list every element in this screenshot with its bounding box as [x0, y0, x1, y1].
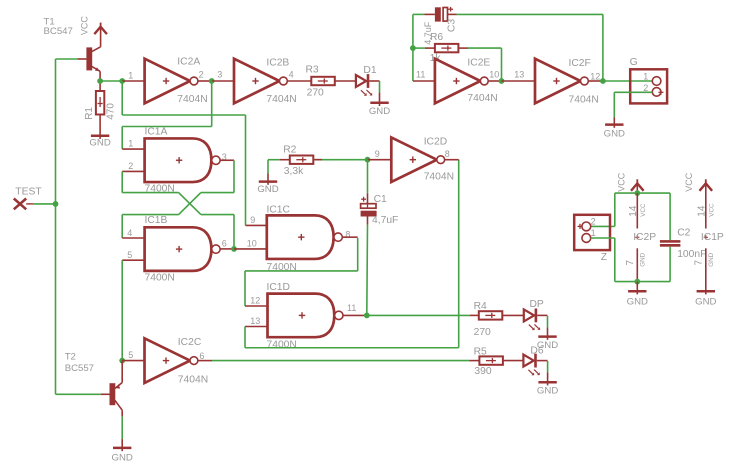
svg-text:GND: GND	[257, 184, 278, 195]
wire IC1A output to IC1B pin4 net	[122, 160, 234, 238]
svg-text:GND: GND	[112, 452, 133, 463]
transistor Q T1 BC547	[77, 47, 100, 81]
wire IC2C output to R5	[198, 360, 480, 362]
svg-text:4: 4	[289, 69, 294, 79]
value 7400N (IC1A)	[145, 184, 175, 195]
svg-text:IC2F: IC2F	[569, 58, 591, 69]
op-amp IC2D 7404 inverter	[391, 137, 444, 182]
pin 4 label (IC2B)	[289, 69, 294, 79]
wire G pin2 to GND	[614, 92, 652, 124]
op-amp IC2P power pins	[635, 235, 639, 239]
svg-text:7404N: 7404N	[424, 171, 454, 182]
test point TEST cross	[14, 199, 34, 210]
label R6	[430, 32, 443, 43]
op-amp IC2C 7404 inverter	[145, 338, 198, 383]
wire junction to GND (IC2P)	[636, 282, 638, 292]
value 100nF (C2)	[677, 249, 706, 260]
wire R3 to D1	[335, 80, 356, 82]
wire C1 to IC1D output junction	[366, 217, 369, 316]
svg-text:7: 7	[694, 260, 705, 266]
wire IC1C output	[342, 236, 358, 238]
label IC1A	[145, 126, 168, 137]
svg-text:GND: GND	[604, 129, 625, 140]
svg-text:8: 8	[345, 230, 350, 240]
pin 9 label (IC2D)	[375, 149, 380, 159]
wire pin13 IC1D	[245, 326, 268, 328]
label IC2A	[177, 57, 200, 68]
svg-text:2: 2	[643, 83, 648, 93]
value 7404N (IC2F)	[569, 94, 599, 105]
svg-text:R3: R3	[306, 64, 319, 75]
pin 10 label (IC1C)	[247, 238, 257, 248]
node VCC junction	[634, 190, 640, 196]
value 270 (R3)	[307, 87, 324, 98]
pin GND label (IC2P)	[640, 252, 647, 266]
wire VCC rail to Z pin2	[591, 193, 670, 226]
svg-text:3: 3	[217, 69, 222, 79]
capacitor C3 4,7uF	[435, 7, 448, 21]
wire pin1 IC2A	[122, 80, 144, 82]
svg-text:IC1C: IC1C	[267, 204, 291, 215]
ground (D1)	[369, 102, 390, 117]
ground (D6)	[537, 382, 558, 397]
value 270 (R4)	[474, 327, 491, 338]
value 4,7uF (C3)	[423, 21, 433, 45]
svg-text:GND: GND	[89, 137, 110, 148]
svg-text:7404N: 7404N	[177, 94, 207, 105]
label IC2P	[633, 232, 656, 243]
wire Z pin1 to GND rail	[591, 238, 670, 282]
wire pin9 IC2D	[368, 159, 392, 161]
wire C3 right net	[448, 14, 603, 81]
pin 2 label (G)	[643, 83, 648, 93]
pin 8 label (IC2D)	[445, 149, 450, 159]
label G	[630, 57, 638, 68]
value 7400N (IC1C)	[267, 262, 297, 273]
svg-text:D6: D6	[530, 345, 543, 356]
op-amp IC2F 7404 inverter	[535, 59, 588, 104]
label R5	[474, 347, 487, 358]
svg-text:IC2A: IC2A	[177, 57, 200, 68]
op-amp IC2B 7404 inverter	[234, 59, 287, 104]
pin 12 label (IC2F)	[590, 72, 600, 82]
svg-text:BC557: BC557	[65, 363, 94, 374]
ground (G)	[604, 124, 625, 140]
wire IC1A output	[220, 159, 234, 161]
label T1	[44, 16, 73, 37]
wire pin9 IC1C	[246, 224, 267, 226]
ground (IC2P)	[627, 291, 648, 308]
pin 11 label (IC2E)	[416, 69, 425, 79]
wire pin13 IC2F	[502, 80, 536, 82]
wire IC2F output	[589, 80, 603, 82]
svg-text:1: 1	[643, 71, 648, 81]
wire R4 to DP	[502, 314, 524, 316]
value 4,7uF (C1)	[372, 215, 398, 226]
wire pin5 IC1B	[122, 259, 144, 261]
LED DP	[524, 309, 540, 331]
svg-text:5: 5	[128, 350, 133, 360]
VCC symbol (IC2P)	[631, 179, 644, 191]
svg-text:IC2C: IC2C	[178, 337, 202, 348]
value 7404N (IC2E)	[467, 93, 497, 104]
resistor R2	[290, 156, 314, 164]
svg-text:VCC: VCC	[79, 16, 89, 36]
VCC label (IC2P)	[616, 172, 626, 192]
label TEST	[15, 186, 42, 197]
wire IC1D output	[343, 314, 367, 316]
node IC2A input junction	[119, 78, 125, 84]
svg-text:GND: GND	[627, 297, 648, 308]
label C1	[374, 194, 387, 205]
svg-text:9: 9	[375, 149, 380, 159]
wire pin10 IC1C	[234, 248, 267, 250]
svg-text:13: 13	[514, 69, 524, 79]
wire pin1 IC1A	[122, 148, 144, 150]
svg-text:VCC: VCC	[640, 203, 647, 217]
wire IC2P pin14 stem	[636, 193, 638, 228]
pin 1 label (Z)	[591, 228, 596, 238]
svg-text:VCC: VCC	[684, 172, 694, 192]
value 1k (R6)	[430, 53, 442, 64]
svg-text:IC1A: IC1A	[145, 126, 168, 137]
op-amp IC2A 7404 inverter	[145, 59, 198, 104]
svg-text:GND: GND	[695, 297, 716, 308]
pin 3 label (IC1A)	[222, 152, 227, 162]
wire R6 right	[458, 48, 501, 81]
svg-text:R4: R4	[474, 301, 487, 312]
svg-text:IC2D: IC2D	[424, 136, 447, 147]
value 390 (R5)	[474, 366, 491, 377]
op-amp IC2E 7404 inverter	[435, 59, 488, 104]
label R2	[283, 145, 296, 156]
svg-text:C3: C3	[446, 19, 457, 32]
svg-text:7404N: 7404N	[569, 94, 599, 105]
label R4	[474, 301, 487, 312]
label IC2E	[467, 57, 490, 68]
label Z	[601, 252, 607, 263]
svg-text:IC1D: IC1D	[267, 282, 290, 293]
nand gate IC1B 7400	[145, 227, 220, 271]
pin GND label (IC1P)	[708, 252, 715, 266]
node IC2P ground junction	[634, 279, 640, 285]
svg-text:5: 5	[127, 250, 132, 260]
wire C2 top	[669, 193, 671, 240]
label IC1B	[145, 215, 168, 226]
svg-text:9: 9	[250, 215, 255, 225]
label C2	[677, 227, 690, 238]
svg-text:8: 8	[445, 149, 450, 159]
ground (IC1P)	[695, 291, 716, 308]
svg-text:6: 6	[222, 238, 227, 248]
svg-text:7400N: 7400N	[145, 272, 175, 283]
svg-text:R6: R6	[430, 32, 443, 43]
svg-text:C2: C2	[677, 227, 690, 238]
VCC label (T1)	[79, 16, 89, 36]
pin 2 label (Z)	[591, 216, 596, 226]
wire R1 to GND	[99, 115, 101, 136]
svg-text:R2: R2	[283, 145, 296, 156]
wire R5 to D6	[503, 360, 524, 362]
plus mark (C1)	[361, 197, 366, 202]
svg-text:1: 1	[591, 228, 596, 238]
wire D1 to corner	[369, 80, 379, 82]
wire IC1B pin5 net	[121, 260, 123, 360]
wire IC2B output to R3	[287, 80, 311, 82]
wire pin4 IC1B	[122, 237, 144, 239]
node IC2A output junction	[209, 78, 215, 84]
wire junction to G pin1	[603, 80, 653, 82]
pin 5 label (IC1B)	[127, 250, 132, 260]
svg-text:7400N: 7400N	[267, 340, 297, 351]
capacitor C2 100nF	[660, 240, 681, 247]
svg-text:390: 390	[474, 366, 491, 377]
svg-text:11: 11	[416, 69, 425, 79]
svg-text:IC2B: IC2B	[266, 57, 289, 68]
wire IC1P pin7 stem	[705, 248, 707, 291]
pin VCC label (IC1P)	[708, 203, 715, 217]
wire IC2A input to IC1C pin9 net	[122, 81, 245, 225]
svg-text:2: 2	[591, 216, 596, 226]
value 470 (R1)	[105, 103, 116, 120]
wire C3 left net	[413, 14, 435, 81]
connector Z	[574, 215, 610, 250]
svg-text:G: G	[630, 57, 638, 68]
svg-text:7: 7	[625, 260, 636, 266]
wire VCC to T1 collector	[100, 27, 102, 47]
svg-text:2: 2	[128, 161, 133, 171]
pin 2 label (IC2A)	[199, 69, 204, 79]
wire IC2D output to IC1D pin13 net	[245, 160, 459, 348]
label IC1C	[267, 204, 291, 215]
svg-text:12: 12	[250, 296, 260, 306]
label IC2F	[569, 58, 591, 69]
wire TEST to vertical	[34, 203, 56, 205]
svg-text:1: 1	[128, 139, 133, 149]
wire IC2A output	[198, 80, 212, 82]
resistor R1	[96, 91, 104, 115]
svg-text:270: 270	[307, 87, 324, 98]
svg-text:12: 12	[590, 72, 600, 82]
pin 14 label (IC1P)	[697, 205, 708, 217]
pin 1 label (IC2A)	[128, 71, 133, 81]
ground (T2)	[112, 447, 133, 463]
wire DP to corner	[537, 314, 547, 316]
svg-text:10: 10	[247, 238, 257, 248]
wire C2 bottom	[669, 247, 671, 282]
wire IC2E output	[488, 80, 501, 82]
wire D6 to corner	[537, 360, 548, 362]
pin 14 label (IC2P)	[628, 205, 639, 217]
VCC symbol (IC1P)	[700, 179, 713, 191]
wire D6 down	[547, 361, 549, 382]
label DP	[530, 299, 544, 310]
wire IC2P pin7 stem	[636, 248, 638, 281]
ground (R1)	[89, 135, 110, 148]
label IC1D	[267, 282, 290, 293]
pin 2 label (IC1A)	[128, 161, 133, 171]
ground (DP)	[537, 336, 558, 351]
nand gate IC1C 7400	[267, 215, 343, 259]
ground (R2)	[257, 181, 278, 195]
wire R2 right to junction	[313, 159, 367, 161]
wire pin11 IC2E	[413, 80, 435, 82]
svg-text:470: 470	[105, 103, 116, 120]
label IC2B	[266, 57, 289, 68]
svg-text:7404N: 7404N	[266, 94, 296, 105]
pin 6 label (IC1B)	[222, 238, 227, 248]
svg-text:1: 1	[128, 71, 133, 81]
svg-text:VCC: VCC	[616, 172, 626, 192]
wire junction to C1	[367, 160, 369, 204]
svg-text:BC547: BC547	[44, 26, 73, 37]
node IC2F output junction	[600, 78, 606, 84]
resistor R4	[479, 311, 503, 319]
svg-text:7404N: 7404N	[178, 374, 208, 385]
svg-text:GND: GND	[640, 252, 647, 266]
node TEST junction	[53, 201, 59, 207]
op-amp IC1P power pins	[704, 235, 708, 239]
pin 10 label (IC2E)	[489, 69, 499, 79]
pin 5 label (IC2C)	[128, 350, 133, 360]
svg-text:4: 4	[127, 228, 132, 238]
label D1	[363, 65, 376, 76]
value 7404N (IC2D)	[424, 171, 454, 182]
pin 8 label (IC1C)	[345, 230, 350, 240]
svg-text:3,3k: 3,3k	[284, 166, 304, 177]
capacitor C1 4,7uF	[361, 204, 377, 217]
wire T2 collector to GND	[121, 416, 123, 448]
node R6 left junction	[410, 45, 416, 51]
label T2	[65, 352, 94, 374]
pin 6 label (IC2C)	[199, 351, 204, 361]
pin 11 label (IC1D)	[347, 303, 356, 313]
value 7400N (IC1D)	[267, 340, 297, 351]
LED D1	[356, 74, 372, 96]
svg-text:R1: R1	[84, 107, 95, 120]
node IC2C input junction	[119, 358, 125, 364]
wire R2 gnd corner	[267, 160, 269, 182]
pin 1 label (G)	[643, 71, 648, 81]
wire IC1B output	[220, 248, 234, 250]
wire pin2 IC1A	[122, 170, 144, 172]
svg-text:4,7uF: 4,7uF	[372, 215, 398, 226]
nand gate IC1D 7400	[268, 294, 343, 338]
wire DP down	[547, 316, 549, 337]
wire pin12 IC1D	[245, 305, 268, 307]
svg-text:IC2P: IC2P	[633, 232, 656, 243]
svg-text:GND: GND	[537, 386, 558, 397]
pin 12 label (IC1D)	[250, 296, 260, 306]
wire IC1C output to IC1D pin12 net	[245, 238, 358, 306]
wire TEST vertical rail	[55, 59, 57, 394]
svg-text:100nF: 100nF	[677, 249, 706, 260]
node IC1D output junction	[364, 313, 370, 319]
node R2/C1/IC2D junction	[365, 157, 371, 163]
svg-text:IC1B: IC1B	[145, 215, 168, 226]
value 7400N (IC1B)	[145, 272, 175, 283]
label R1	[84, 107, 95, 120]
wire T2 base	[56, 393, 110, 395]
pin 1 label (IC1A)	[128, 139, 133, 149]
label IC2D	[424, 136, 447, 147]
pin 7 label (IC2P)	[625, 260, 636, 266]
value 7404N (IC2C)	[178, 374, 208, 385]
svg-text:GND: GND	[369, 106, 390, 117]
node T1 emitter junction	[97, 78, 103, 84]
svg-text:13: 13	[250, 316, 260, 326]
transistor Q T2 BC557	[110, 361, 123, 417]
svg-text:T2: T2	[65, 352, 76, 363]
svg-text:IC2E: IC2E	[467, 57, 490, 68]
wire pin5 IC2C	[122, 360, 144, 362]
resistor R6	[435, 44, 459, 52]
wire emitter junction to IC2A input junction	[100, 80, 122, 82]
pin 13 label (IC1D)	[250, 316, 260, 326]
svg-text:TEST: TEST	[15, 186, 42, 197]
wire pin3 IC2B	[212, 80, 234, 82]
pin 13 label (IC2F)	[514, 69, 524, 79]
wire D1 down	[379, 81, 381, 103]
pin 7 label (IC1P)	[694, 260, 705, 266]
svg-text:GND: GND	[708, 252, 715, 266]
nand gate IC1A 7400	[145, 138, 220, 182]
label D6	[530, 345, 543, 356]
connector G	[630, 69, 667, 103]
svg-text:IC1P: IC1P	[701, 232, 724, 243]
plus mark (C3)	[448, 7, 453, 12]
VCC label (IC1P)	[684, 172, 694, 192]
pin 4 label (IC1B)	[127, 228, 132, 238]
pin 9 label (IC1C)	[250, 215, 255, 225]
svg-text:10: 10	[489, 69, 499, 79]
value 7404N (IC2A)	[177, 94, 207, 105]
node IC1B output junction	[231, 246, 237, 252]
resistor R3	[311, 77, 335, 85]
wire IC1P pin14 stem	[705, 183, 707, 228]
svg-text:11: 11	[347, 303, 356, 313]
pin 3 label (IC2B)	[217, 69, 222, 79]
resistor R5	[479, 356, 503, 364]
LED D6	[523, 354, 539, 376]
label IC1P	[701, 232, 724, 243]
VCC symbol (T1)	[94, 23, 107, 34]
wire IC2A output to IC1A pin1 net	[122, 81, 212, 149]
node IC2E output junction	[499, 78, 505, 84]
wire IC1B output to IC1A pin2 net	[122, 171, 234, 249]
svg-text:VCC: VCC	[708, 203, 715, 217]
svg-text:7404N: 7404N	[467, 93, 497, 104]
label R3	[306, 64, 319, 75]
svg-text:270: 270	[474, 327, 491, 338]
svg-text:2: 2	[199, 69, 204, 79]
wire R6 left	[413, 47, 435, 49]
value 7404N (IC2B)	[266, 94, 296, 105]
wire VCC stem (IC2P)	[636, 183, 638, 193]
svg-text:D1: D1	[363, 65, 376, 76]
wire R2 left	[268, 159, 290, 161]
wire IC1D junction to R4	[367, 314, 479, 316]
svg-text:Z: Z	[601, 252, 607, 263]
wire IC2D output	[445, 159, 459, 161]
pin VCC label (IC2P)	[640, 203, 647, 217]
value 3,3k (R2)	[284, 166, 304, 177]
wire T1 base	[56, 58, 78, 60]
label IC2C	[178, 337, 202, 348]
wire T1 emitter to R1	[99, 81, 101, 91]
svg-text:6: 6	[199, 351, 204, 361]
label C3	[446, 19, 457, 32]
